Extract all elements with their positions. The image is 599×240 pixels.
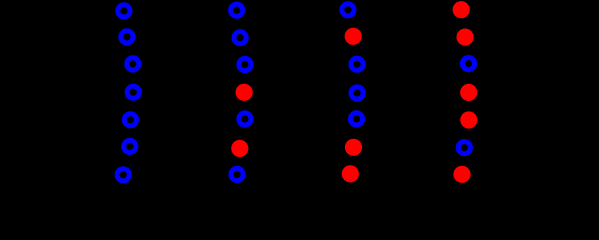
site c2r7 (empty) bbox=[231, 168, 243, 180]
site c1r2 (empty) bbox=[121, 31, 133, 43]
site c3r3 (empty) bbox=[351, 58, 363, 70]
site c4r5 (occupied, red) bbox=[460, 111, 477, 128]
site c3r2 (occupied, red) bbox=[345, 28, 362, 45]
site c3r5 (empty) bbox=[350, 113, 362, 125]
site c2r1 (empty) bbox=[231, 4, 243, 16]
site c1r1 (empty) bbox=[118, 5, 130, 17]
site c4r1 (occupied, red) bbox=[453, 1, 470, 18]
site c2r2 (empty) bbox=[234, 32, 246, 44]
site c4r4 (occupied, red) bbox=[460, 84, 477, 101]
site c3r1 (empty) bbox=[342, 4, 354, 16]
separator bar A2 bbox=[305, 58, 308, 127]
site c3r7 (occupied, red) bbox=[342, 165, 359, 182]
site c4r3 (empty) bbox=[462, 58, 474, 70]
separator bar B3 bbox=[441, 58, 444, 127]
site c2r5 (empty) bbox=[239, 113, 251, 125]
site c2r3 (empty) bbox=[239, 58, 251, 70]
separator bar B1 bbox=[212, 58, 215, 127]
separator bar A3 bbox=[419, 58, 422, 127]
site c2r4 (occupied, red) bbox=[236, 84, 253, 101]
site c3r6 (occupied, red) bbox=[345, 139, 362, 156]
site c1r3 (empty) bbox=[127, 58, 139, 70]
site c1r5 (empty) bbox=[124, 114, 136, 126]
separator bar A1 bbox=[190, 58, 193, 127]
site c4r2 (occupied, red) bbox=[457, 28, 474, 45]
site c3r4 (empty) bbox=[351, 87, 363, 99]
site c1r7 (empty) bbox=[117, 169, 129, 181]
site c4r6 (empty) bbox=[458, 142, 470, 154]
site c1r4 (empty) bbox=[127, 86, 139, 98]
separator bar B2 bbox=[327, 58, 330, 127]
site c1r6 (empty) bbox=[124, 140, 136, 152]
site c2r6 (occupied, red) bbox=[231, 140, 248, 157]
site c4r7 (occupied, red) bbox=[453, 166, 470, 183]
